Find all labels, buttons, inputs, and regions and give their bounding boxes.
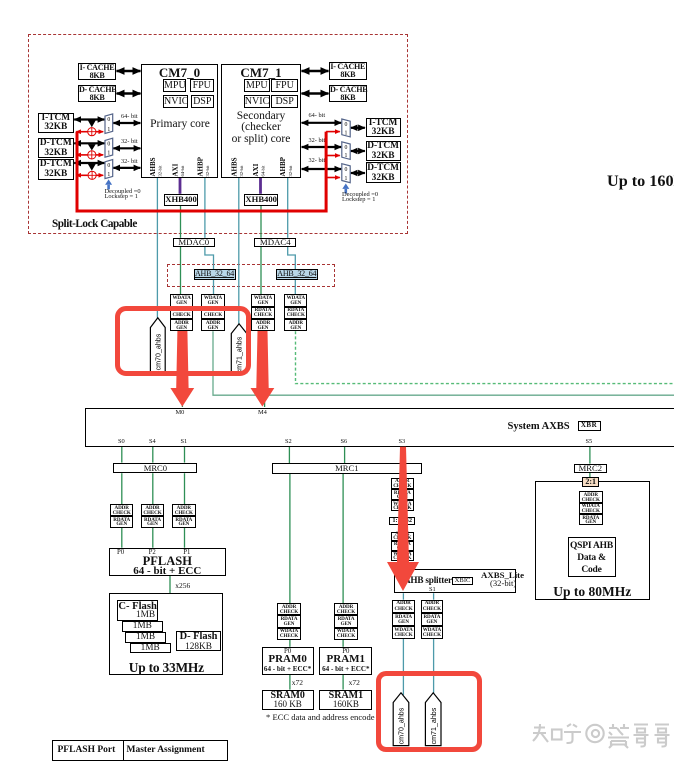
svg-text:AHBS: AHBS bbox=[230, 157, 238, 176]
svg-text:AHBS: AHBS bbox=[149, 157, 157, 176]
svg-text:32-bit: 32-bit bbox=[288, 165, 293, 177]
svg-text:AHBP: AHBP bbox=[196, 156, 204, 176]
svg-text:AHBP: AHBP bbox=[279, 156, 287, 176]
svg-text:32-bit: 32-bit bbox=[158, 165, 163, 177]
svg-text:64-bit: 64-bit bbox=[180, 165, 185, 177]
svg-text:32-bit: 32-bit bbox=[239, 165, 244, 177]
svg-text:32-bit: 32-bit bbox=[205, 165, 210, 177]
svg-text:AXI: AXI bbox=[172, 163, 180, 176]
svg-text:AXI: AXI bbox=[252, 163, 260, 176]
svg-text:64-bit: 64-bit bbox=[261, 165, 266, 177]
